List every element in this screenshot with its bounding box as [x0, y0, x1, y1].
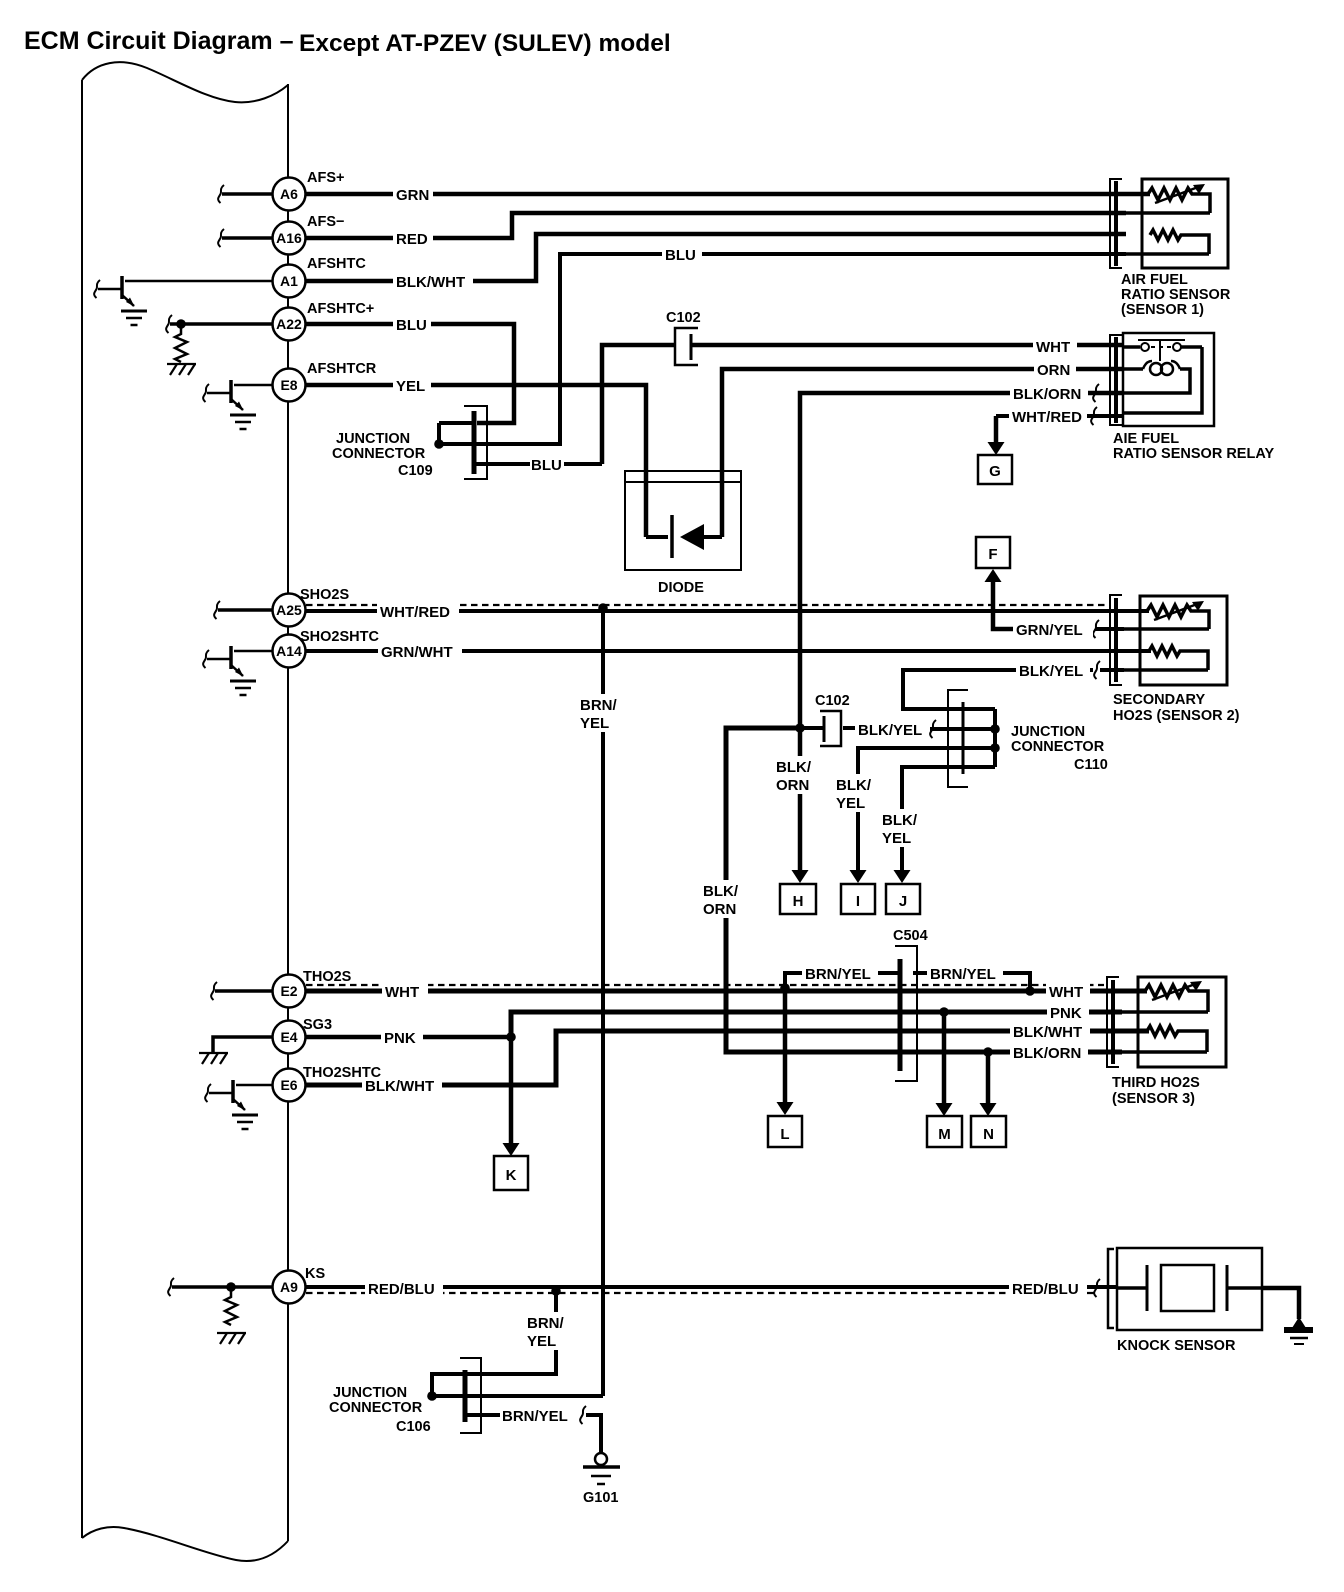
wire BRN/YEL shield drain down to C106 [601, 608, 605, 1396]
svg-text:SG3: SG3 [303, 1017, 332, 1033]
label PNK third HO2S [1047, 1004, 1089, 1022]
svg-text:WHT: WHT [1036, 339, 1070, 356]
svg-text:(SENSOR 1): (SENSOR 1) [1121, 302, 1204, 318]
wire BLK/ORN node to H [798, 728, 803, 870]
svg-text:YEL: YEL [527, 1333, 556, 1350]
pin E8 [273, 369, 306, 402]
svg-text:AIR FUEL: AIR FUEL [1121, 272, 1188, 288]
label RED/BLU A9 [365, 1279, 443, 1298]
svg-text:SECONDARY: SECONDARY [1113, 692, 1205, 708]
label GRN/WHT A14 [378, 643, 462, 661]
svg-text:BLK/: BLK/ [882, 812, 918, 829]
svg-text:JUNCTION: JUNCTION [336, 431, 410, 447]
label WHT relay [1033, 338, 1077, 356]
svg-text:J: J [899, 893, 907, 910]
wire BLK/ORN relay pin3 down to node [800, 393, 1123, 728]
node PNK M dot [939, 1007, 949, 1017]
pin E2 [273, 975, 306, 1008]
wire C109 left link [437, 423, 441, 444]
wire shielded SHO2S A25 to secondary HO2S pin1 [306, 609, 1149, 613]
svg-text:GRN/WHT: GRN/WHT [381, 644, 453, 661]
svg-text:ORN: ORN [1037, 362, 1070, 379]
wire BLK/ORN node to long drop [726, 728, 1122, 1052]
wire BLU A22 to junction connector C109 pin1 [306, 324, 514, 423]
pin E6 [273, 1069, 306, 1102]
svg-text:BLU: BLU [396, 317, 427, 334]
svg-text:PNK: PNK [1050, 1005, 1082, 1022]
svg-text:ECM Circuit Diagram –: ECM Circuit Diagram – [24, 27, 294, 55]
transistor Q3 (A14 driver) [203, 646, 273, 695]
svg-text:KS: KS [305, 1266, 325, 1282]
svg-text:YEL: YEL [836, 795, 865, 812]
wire GRN/YEL secondary HO2S pin2 to F [993, 582, 1014, 629]
wire BRN/YEL shield down to L [783, 991, 788, 1102]
svg-text:THIRD HO2S: THIRD HO2S [1112, 1075, 1200, 1091]
svg-text:SHO2SHTC: SHO2SHTC [300, 629, 379, 645]
label BLK/YEL C102 [855, 721, 929, 739]
label BRN/YEL C504 left [802, 964, 878, 983]
wire WHT/RED relay pin4 to G [996, 414, 1011, 418]
A16 stub [218, 229, 273, 247]
A25 stub [214, 601, 273, 619]
pin A14 [273, 635, 306, 668]
label BLU A22 [393, 316, 431, 334]
svg-text:C106: C106 [396, 1419, 431, 1435]
wire BRN/YEL drain to C106 pin1 [432, 1291, 556, 1396]
label BRN/YEL vertical drain [578, 694, 622, 732]
letter box L [768, 1116, 802, 1147]
svg-text:KNOCK SENSOR: KNOCK SENSOR [1117, 1338, 1236, 1354]
connector C102 lower [815, 693, 850, 746]
wire BLU C109 pin2 to AF sensor pin4 [439, 254, 1126, 444]
node C106 dot [427, 1391, 437, 1401]
wire down to M [942, 1012, 947, 1103]
label GRN/YEL F [1013, 621, 1093, 639]
svg-text:GRN: GRN [396, 187, 429, 204]
wire BRN/YEL C106 pin2 to shield drain vertical [432, 1394, 603, 1398]
heater [1150, 230, 1209, 254]
junction connector C106 [329, 1358, 481, 1435]
pin A22 [273, 308, 306, 341]
svg-text:RED/BLU: RED/BLU [1012, 1281, 1079, 1298]
node PNK junction dot [506, 1032, 516, 1042]
node shield dot right [1025, 986, 1035, 996]
svg-text:AFS+: AFS+ [307, 170, 344, 186]
svg-text:A22: A22 [276, 316, 302, 332]
label BRN/YEL KS drain [524, 1312, 568, 1350]
svg-text:C109: C109 [398, 463, 433, 479]
wire BLK/YEL C102 to C110 pin2 [800, 726, 824, 730]
connector C102 top [666, 310, 701, 365]
svg-text:BLK/: BLK/ [703, 883, 739, 900]
svg-text:RATIO SENSOR: RATIO SENSOR [1121, 287, 1231, 303]
svg-text:BLK/ORN: BLK/ORN [1013, 1045, 1081, 1062]
svg-text:(SENSOR 3): (SENSOR 3) [1112, 1091, 1195, 1107]
wire shielded KS A9 to knock sensor [306, 1285, 1117, 1289]
svg-text:AIE FUEL: AIE FUEL [1113, 431, 1179, 447]
svg-text:THO2S: THO2S [303, 969, 352, 985]
svg-text:BRN/YEL: BRN/YEL [502, 1408, 568, 1425]
label BLK/ORN long wire [700, 880, 750, 918]
transistor Q4 (E6 driver) [205, 1080, 273, 1129]
svg-text:YEL: YEL [580, 715, 609, 732]
svg-text:AFSHTCR: AFSHTCR [307, 361, 377, 377]
A22 pull stub + resistor R1 + ground [166, 315, 273, 375]
svg-text:C102: C102 [815, 693, 850, 709]
svg-text:SHO2S: SHO2S [300, 587, 349, 603]
sensor element [1148, 188, 1210, 213]
svg-text:BLK/WHT: BLK/WHT [1013, 1024, 1082, 1041]
wire shielded THO2S E2 to third HO2S pin1 [306, 989, 1147, 994]
svg-text:I: I [856, 893, 860, 910]
svg-text:A9: A9 [280, 1279, 298, 1295]
svg-text:BRN/: BRN/ [527, 1315, 564, 1332]
wire BRN/YEL C106 pin3 to G101 [467, 1413, 500, 1417]
label BLK/ORN relay [1010, 385, 1088, 403]
svg-text:BLU: BLU [531, 457, 562, 474]
letter box M [927, 1116, 962, 1147]
letter box K [494, 1156, 528, 1190]
svg-text:RED/BLU: RED/BLU [368, 1281, 435, 1298]
svg-text:H: H [793, 893, 804, 910]
label BLU sensor [662, 246, 702, 264]
wire C110 right bus [993, 709, 997, 767]
junction connector C109 [332, 406, 487, 479]
letter box I [841, 884, 875, 914]
wire BLK/YEL C110 pin4 to J [902, 767, 995, 870]
node C110 dots [990, 724, 1000, 734]
E4 stub + ground [199, 1037, 273, 1064]
pin A25 [273, 594, 306, 627]
secondary HO2S (sensor 2) [1110, 595, 1240, 724]
diode D1 [625, 471, 741, 596]
svg-text:WHT: WHT [385, 984, 419, 1001]
wire PNK E4 to third HO2S pin2 [306, 1035, 511, 1040]
letter box F [976, 537, 1010, 568]
node shield dot left [780, 983, 790, 993]
svg-text:BLK/ORN: BLK/ORN [1013, 386, 1081, 403]
svg-text:BLK/: BLK/ [776, 759, 812, 776]
label RED/BLU knock [1009, 1279, 1087, 1298]
svg-text:K: K [506, 1167, 517, 1184]
svg-text:DIODE: DIODE [658, 580, 704, 596]
letter box J [886, 884, 920, 914]
svg-text:E8: E8 [280, 377, 297, 393]
svg-text:BLK/WHT: BLK/WHT [365, 1078, 434, 1095]
svg-text:WHT: WHT [1049, 984, 1083, 1001]
letter box N [971, 1116, 1006, 1147]
svg-text:A1: A1 [280, 273, 298, 289]
svg-text:JUNCTION: JUNCTION [333, 1385, 407, 1401]
svg-text:G101: G101 [583, 1490, 618, 1506]
svg-text:CONNECTOR: CONNECTOR [329, 1400, 423, 1416]
third HO2S (sensor 3) [1107, 977, 1226, 1107]
svg-text:M: M [938, 1126, 951, 1143]
E2 stub [211, 982, 273, 1000]
wire WHT C102 to relay pin1 [691, 343, 1123, 348]
A9 stub + resistor R2 + ground [168, 1278, 272, 1344]
letter box G [978, 455, 1012, 484]
svg-text:A6: A6 [280, 186, 298, 202]
svg-text:RATIO SENSOR RELAY: RATIO SENSOR RELAY [1113, 446, 1274, 462]
label BLK/YEL on I wire [834, 774, 880, 812]
svg-text:YEL: YEL [882, 830, 911, 847]
svg-text:A25: A25 [276, 602, 302, 618]
connector C504 [893, 928, 928, 1081]
svg-text:JUNCTION: JUNCTION [1011, 724, 1085, 740]
svg-text:BLK/: BLK/ [836, 777, 872, 794]
svg-text:A16: A16 [276, 230, 302, 246]
transistor Q2 (E8 driver) [203, 380, 273, 429]
pin A9 [273, 1271, 306, 1304]
label BRN/YEL C504 right [927, 964, 1003, 983]
A6 stub [218, 185, 273, 203]
svg-text:WHT/RED: WHT/RED [1012, 409, 1082, 426]
wire YEL E8 to diode [306, 385, 646, 537]
svg-text:RED: RED [396, 231, 428, 248]
svg-text:L: L [780, 1126, 789, 1143]
label WHT E2 [382, 983, 428, 1001]
wire BRN/YEL shield link through C504 left [785, 973, 803, 991]
svg-text:E4: E4 [280, 1029, 297, 1045]
pin A6 [273, 178, 306, 211]
svg-text:HO2S (SENSOR 2): HO2S (SENSOR 2) [1113, 708, 1240, 724]
svg-text:BRN/YEL: BRN/YEL [805, 966, 871, 983]
wire GRN/WHT A14 to secondary HO2S pin3 [306, 649, 1151, 653]
svg-text:YEL: YEL [396, 378, 425, 395]
pin A1 [273, 265, 306, 298]
svg-text:ORN: ORN [776, 777, 809, 794]
label BLK/WHT third HO2S [1010, 1023, 1090, 1041]
svg-text:AFSHTC+: AFSHTC+ [307, 301, 374, 317]
node BLK/ORN junction dot [795, 723, 805, 733]
wire BLK/ORN stub at relay [1093, 384, 1099, 402]
ECM body outline (torn-paper shape) [82, 62, 288, 1561]
label BLK/ORN on H wire [774, 756, 822, 794]
label GRN [393, 186, 433, 204]
node C109 junction dot [434, 439, 444, 449]
svg-text:WHT/RED: WHT/RED [380, 604, 450, 621]
ground G101 [583, 1453, 620, 1506]
svg-text:AFSHTC: AFSHTC [307, 256, 366, 272]
label BLK/ORN third HO2S [1010, 1044, 1088, 1062]
svg-text:PNK: PNK [384, 1030, 416, 1047]
wire RED A16 to AF sensor pin2 [306, 213, 1126, 238]
svg-text:BLK/YEL: BLK/YEL [1019, 663, 1083, 680]
svg-text:E6: E6 [280, 1077, 297, 1093]
junction connector C110 [948, 690, 1108, 787]
svg-text:CONNECTOR: CONNECTOR [1011, 739, 1105, 755]
relay: AIE FUEL RATIO SENSOR RELAY [1110, 333, 1274, 462]
label BLK/WHT E6 [362, 1077, 442, 1095]
svg-text:BRN/YEL: BRN/YEL [930, 966, 996, 983]
svg-text:ORN: ORN [703, 901, 736, 918]
label PNK E4 [381, 1029, 423, 1047]
svg-text:BLK/YEL: BLK/YEL [858, 722, 922, 739]
wire BLK/WHT E6 to third HO2S pin3 [306, 1031, 1149, 1085]
wire PNK down to K [509, 1037, 514, 1143]
wire BLU C109 pin3 to connector C102 [474, 462, 530, 466]
wire down to N [986, 1052, 991, 1103]
wire GRN A6 to AF sensor pin1 [306, 192, 1150, 197]
label BLK/YEL HO2S2 [1016, 662, 1090, 680]
svg-text:Except AT-PZEV (SULEV) model: Except AT-PZEV (SULEV) model [299, 30, 671, 57]
node KS shield dot [551, 1286, 561, 1296]
pin E4 [273, 1021, 306, 1054]
node shield drain dot [598, 603, 608, 613]
wire BLK/YEL C110 pin3 to I [858, 748, 995, 870]
svg-text:BLU: BLU [665, 247, 696, 264]
label BLK/WHT A1 [393, 273, 473, 291]
knock sensor [1108, 1248, 1313, 1354]
svg-text:C102: C102 [666, 310, 701, 326]
node BLK/ORN N dot [983, 1047, 993, 1057]
svg-text:C504: C504 [893, 928, 928, 944]
svg-text:BRN/: BRN/ [580, 697, 617, 714]
wire BLK/WHT A1 to AF sensor pin3 [306, 234, 1126, 281]
transistor Q1 (A1 driver) [94, 276, 273, 325]
svg-text:F: F [988, 546, 997, 563]
label WHT/RED A25 [377, 602, 459, 621]
label RED [393, 230, 433, 248]
pin A16 [273, 222, 306, 255]
svg-text:E2: E2 [280, 983, 297, 999]
svg-text:C110: C110 [1074, 757, 1108, 773]
svg-text:CONNECTOR: CONNECTOR [332, 446, 426, 462]
svg-text:AFS−: AFS− [307, 214, 344, 230]
wire ORN relay pin2 to diode [722, 369, 1123, 537]
svg-text:BLK/WHT: BLK/WHT [396, 274, 465, 291]
wire BLK/YEL secondary HO2S pin4 to C110 pin1 [1008, 668, 1093, 672]
svg-text:G: G [989, 463, 1001, 480]
label WHT/RED relay [1009, 408, 1087, 426]
label YEL E8 [393, 377, 431, 395]
svg-text:N: N [983, 1126, 994, 1143]
svg-text:A14: A14 [276, 643, 302, 659]
wire BRN/YEL shield link through C504 right [913, 971, 929, 975]
svg-text:GRN/YEL: GRN/YEL [1016, 622, 1083, 639]
label ORN relay [1034, 361, 1076, 379]
air fuel ratio sensor (sensor 1) [1110, 179, 1231, 318]
letter box H [780, 884, 816, 914]
label WHT third HO2S [1046, 983, 1090, 1001]
label BLK/YEL on J wire [880, 809, 926, 847]
